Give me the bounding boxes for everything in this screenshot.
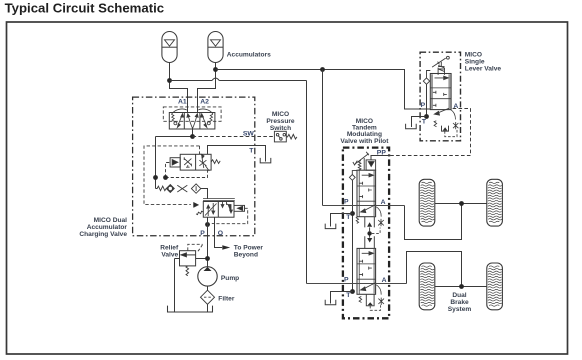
filter diamond [191, 184, 200, 193]
svg-text:P: P [421, 102, 426, 109]
pump [198, 267, 217, 286]
solenoid box right [234, 205, 245, 211]
svg-text:MICO: MICO [465, 52, 482, 59]
node accumulator2 junction [213, 67, 218, 72]
tandem upper body [357, 170, 376, 217]
node relief tee [205, 256, 210, 261]
label MICO Pressure Switch [266, 111, 295, 132]
svg-text:P: P [344, 198, 349, 205]
svg-text:A1: A1 [178, 98, 187, 105]
wire arrow-to-spring curve lower [376, 285, 381, 295]
node tandem upper T [350, 211, 355, 216]
node tandem lower T [350, 289, 355, 294]
svg-text:A: A [382, 277, 387, 284]
svg-text:Beyond: Beyond [234, 251, 258, 258]
tank tandem lower [325, 300, 336, 305]
unloader assembly dashed box [144, 146, 200, 205]
label To Power Beyond [234, 244, 264, 258]
orifice symbol [177, 185, 187, 192]
node accumulator1 junction [167, 78, 172, 83]
filter [201, 290, 215, 304]
tank unloader [260, 158, 271, 163]
svg-text:P: P [344, 276, 349, 283]
accumulator 1 [162, 32, 177, 63]
pilot head tandem [366, 160, 376, 170]
wire tandem lower tank [331, 292, 353, 304]
wire PP [371, 156, 390, 160]
dashed single bottom feedback [445, 130, 457, 137]
label Dual Brake System [448, 292, 472, 313]
dashed feedback loop [210, 208, 248, 224]
spring tandem upper [356, 217, 358, 224]
node front axle [459, 201, 464, 206]
tandem upper internals [360, 174, 374, 199]
wire rear axle feed [407, 252, 462, 287]
wire tandem upper tank [331, 214, 353, 227]
lever actuator [432, 56, 449, 75]
svg-text:Valve with Pilot: Valve with Pilot [340, 138, 389, 145]
svg-text:Pump: Pump [221, 275, 239, 282]
svg-text:System: System [448, 306, 472, 313]
wire filter to reservoir [207, 304, 209, 312]
svg-text:Pressure: Pressure [266, 118, 295, 125]
arrow to power beyond [222, 245, 230, 249]
tank single lever [406, 124, 417, 129]
spring tandem bottom [359, 297, 362, 303]
label Relief Valve [160, 245, 179, 259]
single lever spring box [442, 126, 449, 132]
tank tandem upper [325, 224, 336, 229]
wire rear axle [435, 286, 487, 288]
charging spool valve [203, 202, 234, 218]
svg-text:P: P [200, 230, 205, 237]
spring unloader [211, 160, 220, 164]
modulation arrow lower [361, 283, 376, 291]
svg-text:A: A [381, 199, 386, 206]
svg-text:Valve: Valve [161, 252, 178, 259]
node pilot branch junction [163, 175, 168, 180]
svg-text:Accumulators: Accumulators [227, 52, 271, 59]
node branch to tandem valve upper P [320, 67, 325, 72]
wire front axle [435, 203, 487, 205]
wire supply line 2 with crossover hop [170, 78, 307, 80]
dashed tandem bottom feedback [370, 305, 380, 310]
wire supply line 1 to single lever valve [216, 70, 431, 110]
node rear axle [459, 284, 464, 289]
dual check valve body [169, 113, 215, 130]
wire tandem lower P-A line [307, 283, 407, 285]
wire SW dashed sense line [193, 136, 275, 138]
spring single lever [434, 121, 437, 127]
orifice asterisk upper [378, 219, 384, 226]
node spool P junction [205, 222, 210, 227]
wheel front right [487, 179, 503, 226]
tandem valve dash-dot enclosure [343, 148, 389, 319]
dashed pilot line to PP [390, 109, 470, 156]
svg-text:Brake: Brake [450, 299, 469, 306]
tandem bottom spring box [366, 294, 374, 306]
node dual check outlet [190, 134, 195, 139]
pedal actuator [353, 152, 369, 170]
svg-text:Relief: Relief [160, 245, 179, 252]
svg-text:MICO: MICO [272, 111, 289, 118]
wire single lever tank [412, 117, 427, 128]
svg-text:Filter: Filter [218, 295, 235, 302]
wire accumulator1 stem [170, 63, 188, 113]
relief valve [180, 251, 196, 266]
wheel rear right [487, 263, 503, 310]
modulation arrow upper [361, 205, 376, 213]
spring relief valve [186, 266, 189, 276]
single lever valve dash-dot enclosure [420, 52, 460, 141]
node single lever T [424, 114, 429, 119]
svg-text:A2: A2 [200, 98, 209, 105]
wire front axle feed [405, 204, 462, 240]
dual check valve internals [171, 109, 213, 129]
wheel front left [419, 179, 435, 226]
tandem lower body [357, 248, 376, 294]
single lever valve body [430, 74, 451, 110]
charging spool internals [205, 202, 232, 216]
wire single lever P vertical [426, 84, 428, 116]
orifice asterisk lower [378, 298, 384, 305]
charging spool top bars [203, 199, 235, 201]
svg-text:To Power: To Power [234, 244, 264, 251]
check diamond single lever [423, 71, 430, 85]
unloader valve internals [184, 154, 209, 171]
reservoir [168, 306, 213, 312]
accumulator 2 [208, 32, 223, 63]
wire accumulator2 stem [198, 63, 216, 113]
wire tandem upper P-A line [323, 205, 405, 207]
modulation arrow single [434, 108, 449, 115]
wire line 2 down to tandem lower P [306, 81, 308, 284]
wire spool O to power beyond [215, 217, 223, 247]
wire spool P down [207, 217, 209, 267]
interstage shuttle [365, 217, 375, 249]
label MICO Tandem Modulating Valve with Pilot [340, 118, 389, 145]
svg-text:Single: Single [465, 59, 485, 66]
svg-text:O: O [218, 230, 223, 237]
check diamond tandem [349, 171, 357, 181]
svg-text:Dual: Dual [452, 292, 466, 299]
wire orifice chain to spool [201, 189, 208, 199]
node left rail junction [153, 175, 158, 180]
node interstage [367, 231, 371, 235]
label MICO Single Lever Valve [465, 52, 502, 73]
pilot arrow charging spool [194, 202, 199, 207]
spring charging spool [196, 211, 203, 214]
wheel rear left [419, 263, 435, 310]
charging valve dash-dot enclosure [133, 97, 255, 236]
svg-text:T: T [422, 119, 427, 126]
label MICO Dual Accumulator Charging Valve [79, 217, 127, 238]
svg-text:Accumulator: Accumulator [87, 224, 128, 231]
dashed interstage to orifice [372, 228, 380, 234]
dual check valve dashed box [163, 107, 221, 121]
pressure switch SW [274, 131, 297, 142]
wire arrow-to-spring curve single [451, 110, 456, 120]
unloader valve U1 [180, 154, 211, 170]
orifice asterisk single [453, 122, 458, 129]
unloader pilot box [170, 158, 180, 167]
check valve diamond [166, 185, 174, 193]
svg-text:SW: SW [243, 130, 255, 137]
wire pump to filter [207, 286, 209, 290]
single lever internals [433, 76, 449, 107]
svg-text:Lever Valve: Lever Valve [465, 66, 502, 73]
unloader pilot dashed lines [166, 163, 208, 178]
spring inlet of orifice chain [156, 186, 167, 191]
svg-text:Typical Circuit Schematic: Typical Circuit Schematic [5, 1, 165, 16]
wire relief connections [175, 259, 208, 313]
svg-text:Charging Valve: Charging Valve [79, 231, 127, 238]
wire dual check outlet [156, 129, 193, 189]
tandem lower internals [360, 252, 374, 277]
wire tandem T rail [352, 180, 354, 291]
wire branch down to tandem upper P [322, 70, 324, 206]
wire arrow-to-spring curve upper [376, 207, 381, 217]
svg-text:T: T [249, 148, 254, 155]
svg-text:MICO Dual: MICO Dual [94, 217, 128, 224]
wire unloader tank line [208, 146, 266, 162]
dashed relief pilot [188, 244, 203, 252]
